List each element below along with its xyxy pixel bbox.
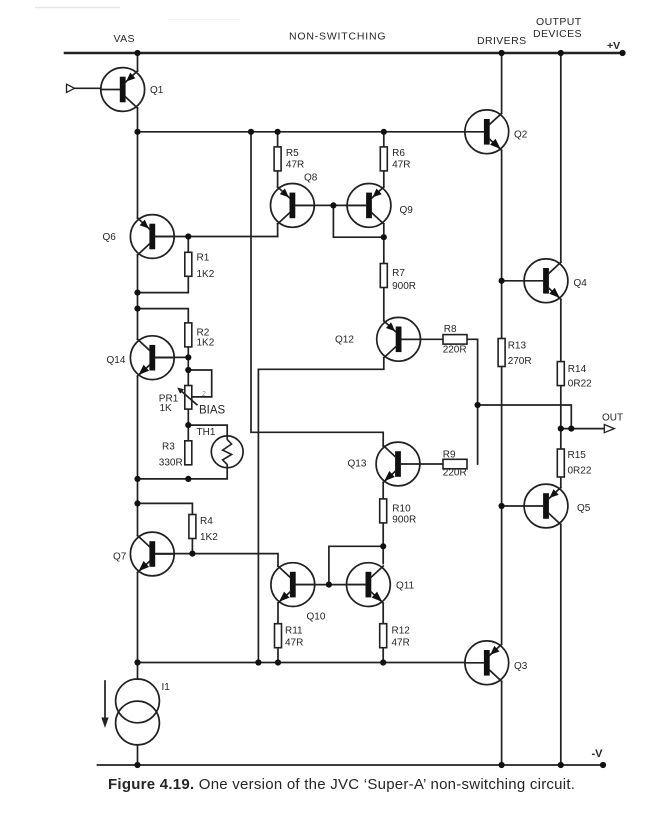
node R10 bottom xyxy=(380,543,386,549)
svg-text:0R22: 0R22 xyxy=(568,466,592,477)
svg-text:+V: +V xyxy=(607,40,620,52)
wire TH1 top link xyxy=(188,425,227,436)
svg-text:Q5: Q5 xyxy=(577,503,591,514)
node +V/Q1 xyxy=(134,50,140,56)
+V rail xyxy=(65,52,623,55)
svg-text:900R: 900R xyxy=(392,281,416,292)
svg-text:Q13: Q13 xyxy=(348,459,367,470)
node bus/Q13 tap xyxy=(248,129,254,135)
node +V/output xyxy=(558,50,564,56)
resistor R11 47R xyxy=(275,624,282,648)
wire Q14 base xyxy=(155,356,188,358)
label Q10 xyxy=(307,612,326,623)
label Q3 xyxy=(514,661,528,672)
node -V/I1 xyxy=(134,762,140,768)
wire +V to Q2 collector xyxy=(501,53,503,113)
wire bus down to Q6 emitter xyxy=(137,132,139,218)
node bus/R5 xyxy=(275,129,281,135)
transistor Q11 xyxy=(347,563,391,607)
wire Q5 base xyxy=(502,505,524,507)
resistor R2 1K2 xyxy=(185,323,192,347)
wire bus to R6 to Q9 emitter xyxy=(383,132,385,187)
resistor R15 0R22 xyxy=(557,449,564,477)
label Q2 xyxy=(514,130,528,141)
node bottom/Q12 collector xyxy=(255,659,261,665)
node +V/drivers xyxy=(499,50,505,56)
node Q9 collector/R7 xyxy=(381,234,387,240)
label BIAS xyxy=(199,405,226,417)
scan artifact line top-left xyxy=(35,8,240,20)
node OUT drop xyxy=(568,426,574,432)
svg-text:Q12: Q12 xyxy=(335,335,354,346)
svg-text:Q3: Q3 xyxy=(514,661,528,672)
label TH1 xyxy=(197,427,216,438)
label Q9 xyxy=(400,205,414,216)
wire Q7 base to Q10 collector xyxy=(155,554,278,566)
label R14 value xyxy=(568,364,592,390)
svg-text:-V: -V xyxy=(592,748,604,760)
wire bottom node to Q3 base xyxy=(138,662,466,664)
svg-text:DRIVERS: DRIVERS xyxy=(477,35,526,47)
I1 direction arrow xyxy=(101,681,108,728)
wire OUT stub xyxy=(561,428,604,430)
label I1 xyxy=(162,682,171,693)
transistor Q4 xyxy=(524,259,568,303)
resistor R4 1K2 xyxy=(189,515,196,539)
svg-text:Q4: Q4 xyxy=(574,278,588,289)
label R10 value xyxy=(392,504,416,526)
header NON-SWITCHING xyxy=(289,31,386,43)
node Q10/Q11 base tie xyxy=(326,582,332,588)
svg-text:2: 2 xyxy=(202,391,206,398)
resistor R1 1K2 xyxy=(185,252,192,276)
-V rail xyxy=(98,764,604,766)
wire Q3 collector to -V xyxy=(501,681,503,765)
PR1 pin mark 2 xyxy=(202,391,206,398)
svg-text:0R22: 0R22 xyxy=(568,378,592,389)
svg-text:Q10: Q10 xyxy=(307,612,326,623)
current source I1 xyxy=(116,679,160,745)
svg-text:R14: R14 xyxy=(568,364,587,375)
svg-text:R9: R9 xyxy=(443,450,456,461)
svg-text:OUT: OUT xyxy=(602,413,623,424)
svg-text:47R: 47R xyxy=(286,160,304,171)
transistor Q14 xyxy=(130,336,174,380)
node bus/R6 xyxy=(381,129,387,135)
node R3/TH1 bottom xyxy=(185,476,191,482)
wire Q9 collector through R7 to Q12 emitter xyxy=(383,224,385,321)
wire Q11 emitter through R12 to bottom wire xyxy=(382,603,384,662)
label R13 value xyxy=(508,341,532,368)
potentiometer PR1 1K xyxy=(177,386,197,410)
transistor Q10 xyxy=(271,563,315,607)
input arrow xyxy=(67,84,75,92)
wire +V to Q4 collector xyxy=(560,53,562,262)
label R9 value xyxy=(443,450,467,479)
wire R4 bottom to Q7 base xyxy=(191,538,193,553)
wire Q6 collector to Q14 collector xyxy=(137,255,139,339)
wire R8/R9 node to OUT node xyxy=(478,405,572,429)
wire R2 top tap xyxy=(138,309,189,358)
wire Q1 emitter to +V xyxy=(137,53,139,71)
label Q14 xyxy=(107,355,126,366)
header OUTPUT DEVICES xyxy=(533,16,582,40)
wire R9 left to Q13 base xyxy=(420,463,443,465)
svg-text:Figure 4.19. One version of th: Figure 4.19. One version of the JVC ‘Sup… xyxy=(108,776,575,793)
wire VAS bus (Q1 collector to Q2 base) xyxy=(138,131,466,133)
transistor Q12 xyxy=(377,317,421,361)
label R2 value xyxy=(197,328,215,349)
svg-text:TH1: TH1 xyxy=(197,427,216,438)
label Q7 xyxy=(113,552,127,563)
label Q8 xyxy=(304,173,318,184)
transistor Q3 xyxy=(465,641,509,685)
label +V xyxy=(607,40,620,52)
svg-text:1K2: 1K2 xyxy=(200,532,218,543)
node -V end xyxy=(600,762,606,768)
node Q6 base/R1 xyxy=(185,233,191,239)
node Q14 base/R2 xyxy=(185,354,191,360)
wire Q5 collector to -V xyxy=(560,525,562,766)
label R5 value xyxy=(286,148,304,171)
svg-text:220R: 220R xyxy=(443,345,467,356)
svg-text:900R: 900R xyxy=(392,515,416,526)
wire R8 right to R9 right xyxy=(467,339,478,464)
transistor Q13 xyxy=(376,442,420,486)
label -V xyxy=(592,748,604,760)
wire Q4 emitter through R14 to OUT node xyxy=(560,299,562,428)
svg-text:Q6: Q6 xyxy=(103,232,117,243)
node rail/R3 bottom xyxy=(134,476,140,482)
svg-text:Q1: Q1 xyxy=(150,85,164,96)
wire Q10 emitter through R11 to bottom wire xyxy=(277,603,279,662)
label R6 value xyxy=(392,148,410,171)
resistor R12 47R xyxy=(380,624,387,648)
label R4 value xyxy=(200,516,218,543)
node R13/Q5 base xyxy=(499,503,505,509)
wire bus tap down to Q13 collector xyxy=(251,132,383,446)
svg-text:R15: R15 xyxy=(568,450,587,461)
svg-text:R11: R11 xyxy=(285,626,303,637)
node R14/OUT xyxy=(558,426,564,432)
wire input lead to Q1 base xyxy=(75,87,101,89)
node bottom/R12 xyxy=(380,659,386,665)
svg-text:NON-SWITCHING: NON-SWITCHING xyxy=(289,31,386,43)
transistor Q6 xyxy=(130,215,174,259)
svg-text:R10: R10 xyxy=(392,504,411,515)
transistor Q9 xyxy=(347,184,391,228)
wire Q13 emitter through R10 to Q11 collector xyxy=(382,483,384,564)
svg-text:Q11: Q11 xyxy=(396,581,415,592)
label R12 value xyxy=(392,626,411,649)
svg-text:R8: R8 xyxy=(444,324,457,335)
wire Q4 base xyxy=(502,280,524,282)
node -V/Q3 xyxy=(499,762,505,768)
svg-text:Q9: Q9 xyxy=(400,205,414,216)
node rail/R4 xyxy=(134,500,140,506)
label Q12 xyxy=(335,335,354,346)
label Q11 xyxy=(396,581,415,592)
svg-text:330R: 330R xyxy=(159,458,183,469)
label Q13 xyxy=(348,459,367,470)
label R11 value xyxy=(285,626,303,649)
node PR1/R3/TH1 xyxy=(185,422,191,428)
wire Q14 emitter down to Q7 collector xyxy=(137,376,139,535)
wire Q7 emitter down to I1 xyxy=(137,573,139,680)
svg-text:R7: R7 xyxy=(392,268,405,279)
svg-text:Q14: Q14 xyxy=(107,355,126,366)
node rail/R1 xyxy=(134,290,140,296)
label R15 value xyxy=(568,450,592,477)
svg-text:R4: R4 xyxy=(200,516,213,527)
svg-text:BIAS: BIAS xyxy=(199,405,226,417)
wire Q14 base node down through PR1 to R3 xyxy=(187,357,189,441)
resistor R9 220R (horizontal) xyxy=(443,459,467,469)
node R8/R9 to OUT xyxy=(475,402,481,408)
label OUT xyxy=(602,413,623,424)
label R1 value xyxy=(197,253,215,281)
svg-text:Q2: Q2 xyxy=(514,130,528,141)
transistor Q1 xyxy=(101,68,145,112)
label Q6 xyxy=(103,232,117,243)
node +V end xyxy=(619,50,625,56)
node Q8/Q9 base tie xyxy=(330,202,336,208)
wire Q10 base to Q11 base xyxy=(296,584,366,586)
wire I1 to -V rail xyxy=(137,745,139,765)
caption Figure 4.19 xyxy=(108,776,575,793)
node Q2 emitter/Q4 base xyxy=(499,278,505,284)
resistor R5 47R xyxy=(274,147,281,171)
svg-text:270R: 270R xyxy=(508,356,532,367)
transistor Q8 xyxy=(271,184,315,228)
wire Q8 collector drop xyxy=(277,224,279,237)
wire PR1 wiper loop xyxy=(188,370,211,397)
svg-text:VAS: VAS xyxy=(114,33,135,45)
wire Q2 emitter down through R13 to Q3 emitter xyxy=(501,150,503,644)
label Q1 xyxy=(150,85,164,96)
wire bus to R5 to Q8 emitter xyxy=(277,132,279,187)
svg-text:OUTPUT: OUTPUT xyxy=(536,16,582,28)
header DRIVERS xyxy=(477,35,526,47)
transistor Q5 xyxy=(524,484,568,528)
node -V/Q5 xyxy=(558,762,564,768)
label Q5 xyxy=(577,503,591,514)
node PR1 wiper loop xyxy=(185,367,191,373)
resistor R14 0R22 xyxy=(557,362,564,386)
svg-text:R12: R12 xyxy=(392,626,411,637)
svg-text:Q7: Q7 xyxy=(113,552,127,563)
thermistor TH1 xyxy=(211,436,243,468)
svg-text:47R: 47R xyxy=(392,160,410,171)
svg-text:1K: 1K xyxy=(160,403,173,414)
wire Q12 collector down to bottom node xyxy=(258,358,383,663)
resistor R13 270R xyxy=(498,339,505,367)
svg-text:47R: 47R xyxy=(285,638,303,649)
label Q4 xyxy=(574,278,588,289)
label R3 value xyxy=(159,442,183,469)
wire Q1 collector to VAS bus xyxy=(137,108,139,132)
svg-text:1K2: 1K2 xyxy=(197,269,215,280)
resistor R3 330R xyxy=(185,441,192,465)
node Q7 base/R4 xyxy=(189,551,195,557)
wire base tie down to Q9 collector node xyxy=(333,205,383,237)
svg-text:Q8: Q8 xyxy=(304,173,318,184)
svg-text:R3: R3 xyxy=(162,442,175,453)
wire Q8 base to Q9 base xyxy=(295,204,366,206)
header VAS xyxy=(114,33,135,45)
node bottom/R11 xyxy=(275,659,281,665)
OUT arrow xyxy=(604,425,614,433)
node bottom/I1 xyxy=(134,659,140,665)
wire Q6 base to Q8 collector xyxy=(155,236,277,238)
wire R10 bottom loop to Q10/Q11 bases xyxy=(329,546,383,584)
svg-text:1K2: 1K2 xyxy=(197,338,215,349)
resistor R8 220R (horizontal) xyxy=(443,335,467,345)
transistor Q7 xyxy=(130,532,174,576)
wire R1 top tap xyxy=(138,237,189,293)
label R7 value xyxy=(392,268,416,292)
svg-text:R6: R6 xyxy=(392,148,405,159)
svg-text:R1: R1 xyxy=(197,253,210,264)
label R8 value xyxy=(443,324,467,356)
resistor R7 900R xyxy=(380,264,387,288)
svg-text:I1: I1 xyxy=(162,682,171,693)
node rail/R2 xyxy=(134,306,140,312)
wire OUT node through R15 to Q5 emitter xyxy=(560,429,562,488)
label PR1 value xyxy=(159,394,179,415)
svg-text:R13: R13 xyxy=(508,341,527,352)
resistor R10 900R xyxy=(380,499,387,523)
svg-text:DEVICES: DEVICES xyxy=(533,28,582,40)
node bus/Q1 xyxy=(134,129,140,135)
wire R4 top tap xyxy=(138,503,193,514)
wire R3/TH1 bottom link xyxy=(138,468,228,479)
svg-text:R5: R5 xyxy=(286,148,299,159)
svg-text:47R: 47R xyxy=(392,638,410,649)
resistor R6 47R xyxy=(380,147,387,171)
transistor Q2 xyxy=(465,110,509,154)
wire Q12 base to R8 xyxy=(402,338,444,340)
svg-text:220R: 220R xyxy=(443,468,467,479)
